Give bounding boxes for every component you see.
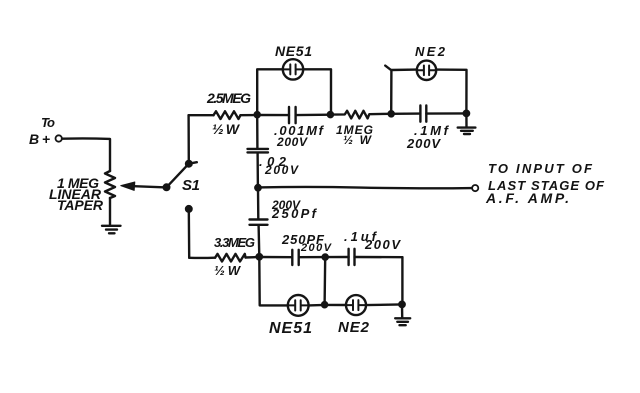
svg-text:TAPER: TAPER: [57, 197, 104, 213]
svg-text:2.5MEG: 2.5MEG: [206, 90, 251, 106]
svg-text:200V: 200V: [406, 136, 441, 151]
svg-text:NE2: NE2: [415, 44, 446, 59]
svg-text:NE2: NE2: [338, 319, 370, 336]
svg-text:½W: ½W: [214, 263, 242, 278]
svg-text:200V: 200V: [300, 242, 333, 254]
svg-text:NE51: NE51: [269, 320, 312, 337]
svg-text:To: To: [41, 115, 55, 130]
svg-text:NE51: NE51: [275, 43, 312, 59]
svg-text:200V: 200V: [264, 163, 299, 177]
svg-text:200V: 200V: [276, 135, 308, 149]
svg-text:B+: B+: [29, 131, 50, 147]
svg-text:TO INPUT OF: TO INPUT OF: [488, 161, 593, 176]
svg-text:½W: ½W: [212, 121, 241, 137]
svg-text:3.3MEG: 3.3MEG: [214, 235, 255, 250]
svg-text:.1uf: .1uf: [344, 229, 378, 244]
svg-text:250Pf: 250Pf: [271, 206, 318, 221]
svg-text:200V: 200V: [364, 237, 401, 252]
svg-text:S1: S1: [182, 177, 200, 194]
